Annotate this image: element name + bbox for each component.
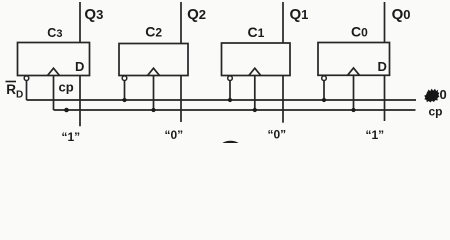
svg-text:“1”: “1” xyxy=(62,130,81,143)
svg-text:R: R xyxy=(6,82,16,97)
wire clear-0 bus xyxy=(27,99,417,101)
clock edge triangle C2 xyxy=(148,68,160,75)
svg-text:Q1: Q1 xyxy=(290,6,309,23)
flip-flop U3 (C1) box xyxy=(222,43,291,76)
flip-flop U1 (C3) box xyxy=(18,43,90,76)
clock edge triangle C0 xyxy=(348,68,360,75)
wire clock C3 input xyxy=(53,76,55,111)
svg-text:Q3: Q3 xyxy=(84,6,103,23)
svg-text:“0”: “0” xyxy=(268,128,287,142)
svg-text:“1”: “1” xyxy=(366,128,385,142)
svg-text:C3: C3 xyxy=(47,26,62,40)
svg-text:cp: cp xyxy=(59,80,74,95)
junction dot reset C2 on clear bus xyxy=(122,98,126,102)
wire Q2 output xyxy=(180,2,182,44)
junction dot clock C1 on cp bus xyxy=(253,108,257,112)
reset bubble C0 xyxy=(322,76,327,81)
svg-text:Q2: Q2 xyxy=(187,6,206,23)
wire Q3 output xyxy=(79,2,81,43)
svg-text:Q0: Q0 xyxy=(392,6,411,23)
junction dot clock C0 on cp bus xyxy=(351,108,355,112)
clock edge triangle C1 xyxy=(249,68,261,75)
svg-text:0: 0 xyxy=(440,87,447,102)
svg-text:D: D xyxy=(16,90,23,101)
junction dot on cp bus left xyxy=(64,108,69,113)
svg-text:C0: C0 xyxy=(351,23,368,39)
wire reset C2 to clear bus xyxy=(124,80,126,100)
wire reset C1 to clear bus xyxy=(229,80,231,100)
reset bubble C2 xyxy=(122,76,127,81)
svg-text:cp: cp xyxy=(429,105,443,119)
svg-text:D: D xyxy=(378,59,387,74)
figure-number circle (cut off at bottom edge) xyxy=(220,143,241,158)
wire reset C3 to clear bus xyxy=(26,80,28,100)
svg-text:D: D xyxy=(75,59,84,74)
wire clock C2 input xyxy=(153,76,155,111)
wire reset C0 to clear bus xyxy=(323,80,325,100)
wire clock C1 input xyxy=(254,76,256,111)
wire D input C3 to "1" xyxy=(79,76,81,127)
svg-text:“0”: “0” xyxy=(165,128,184,142)
junction dot reset C0 on clear bus xyxy=(322,98,326,102)
wire Q0 output xyxy=(384,2,386,43)
wire D input C2 to "0" xyxy=(180,76,182,123)
wire cp bus xyxy=(54,109,416,111)
wire D input C0 to "1" xyxy=(384,75,386,121)
wire Q1 output xyxy=(282,2,284,43)
reset bubble C3 xyxy=(24,76,29,81)
flip-flop U2 (C2) box xyxy=(119,44,188,76)
junction dot reset C1 on clear bus xyxy=(228,98,232,102)
label clear-0 bus (Chinese char blob + 0) xyxy=(424,89,439,103)
wire D input C1 to "0" xyxy=(282,76,284,123)
svg-text:C2: C2 xyxy=(145,23,162,39)
flip-flop U4 (C0) box xyxy=(318,43,390,76)
junction dot clock C2 on cp bus xyxy=(151,108,155,112)
svg-text:C1: C1 xyxy=(248,24,265,40)
clock edge triangle C3 xyxy=(48,68,60,75)
reset bubble C1 xyxy=(228,76,233,81)
wire clock C0 input xyxy=(353,75,355,110)
